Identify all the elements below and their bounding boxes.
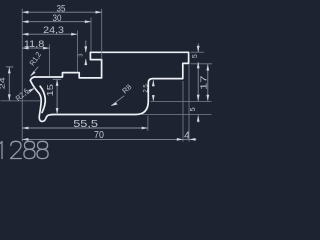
dim 15 mid x=57.1 <box>53 78 62 80</box>
dim 2,5 at J corner x=153.3 <box>152 80 154 87</box>
svg-text:30: 30 <box>53 13 62 23</box>
dim 4 line with outside arrows <box>183 138 197 140</box>
svg-text:35: 35 <box>57 4 66 14</box>
svg-text:5: 5 <box>188 107 197 111</box>
svg-text:24,3: 24,3 <box>43 25 64 35</box>
svg-text:5: 5 <box>192 54 199 58</box>
dim 24,3 line <box>22 33 77 35</box>
profile outline main <box>35 52 189 114</box>
svg-text:55,5: 55,5 <box>73 119 98 130</box>
ext line x=101.7 for 35 <box>101 9 103 60</box>
radius label R2,6 <box>28 88 35 94</box>
ext h y=63.8 right of box <box>191 63 213 65</box>
svg-text:3: 3 <box>79 53 85 56</box>
dim 24 far left x=9.3 <box>6 66 14 68</box>
ext x=183 lower right <box>182 81 184 142</box>
dim 3 vertical at step <box>85 41 87 53</box>
dim 5 lower at x=198.2 <box>197 115 199 122</box>
ext x=147.9 below J <box>147 116 149 131</box>
ext h y=100.9 left <box>1 100 41 102</box>
dim 5 box height at x=198.2 <box>197 44 199 52</box>
svg-text:17: 17 <box>199 75 208 90</box>
dim 30 line <box>22 21 91 23</box>
svg-text:70: 70 <box>94 130 104 141</box>
ext line x=91 for 30 <box>90 18 92 52</box>
profile left R1.2 corner <box>30 77 34 80</box>
ext line left datum x=22.2 <box>21 9 23 142</box>
dim 35 line <box>22 11 102 13</box>
profile left outer S-curve and hook <box>30 80 53 121</box>
dim 11,8 line <box>22 47 49 49</box>
dim 17 left line x=198.2 <box>197 62 199 101</box>
radius label R8 <box>111 96 124 106</box>
ext h y=114.6 right of bottom edge <box>140 114 212 116</box>
ext h y=52.2 right of box <box>191 51 205 53</box>
ext x=189 box right <box>188 65 190 142</box>
profile inner curve strand <box>40 86 45 112</box>
drawing number 1288 stroke digits <box>0 141 48 158</box>
ext line x=77.4 for 24,3 <box>76 31 78 72</box>
svg-text:15: 15 <box>46 83 55 96</box>
svg-text:24: 24 <box>0 77 7 89</box>
dim 70 line <box>22 138 183 140</box>
radius label R1,2 <box>31 67 38 76</box>
ext line x=49.4 for 11,8 <box>48 44 50 76</box>
dim 17 right line x=207.8 <box>207 64 209 101</box>
dim 55,5 line <box>22 127 148 129</box>
svg-text:11,8: 11,8 <box>24 39 44 49</box>
ext h y=101.4 right area <box>151 100 212 102</box>
svg-text:2,5: 2,5 <box>142 84 149 93</box>
